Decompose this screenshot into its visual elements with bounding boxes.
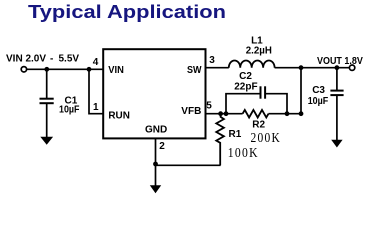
wire ground link	[156, 164, 221, 166]
node C1 tap	[44, 67, 49, 72]
svg-text:C3: C3	[312, 85, 325, 96]
resistor R2	[243, 110, 269, 118]
svg-text:Typical Application: Typical Application	[28, 2, 226, 22]
svg-text:10µF: 10µF	[59, 105, 80, 116]
resistor R1	[216, 114, 224, 166]
capacitor C2	[261, 86, 266, 98]
svg-text:GND: GND	[145, 125, 167, 136]
wire feedback vertical	[300, 68, 302, 114]
wire SW to L1	[206, 67, 229, 69]
node R1 tap	[218, 111, 223, 116]
wire VFB rail left	[206, 113, 243, 115]
svg-text:RUN: RUN	[108, 111, 129, 122]
svg-text:22pF: 22pF	[234, 81, 257, 92]
wire GND pin	[155, 138, 157, 165]
wire C1 lower lead	[46, 103, 48, 137]
svg-text:VFB: VFB	[181, 106, 201, 117]
output terminal (VOUT)	[349, 65, 354, 70]
input terminal (VIN)	[21, 67, 26, 72]
wire C3 lower lead	[336, 95, 338, 141]
svg-text:3: 3	[209, 55, 215, 66]
svg-text:-: -	[50, 54, 53, 65]
svg-text:VIN 2.0V: VIN 2.0V	[6, 54, 46, 65]
wire GND down lead	[155, 165, 157, 186]
svg-text:VOUT 1.8V: VOUT 1.8V	[317, 56, 363, 67]
capacitor C3	[330, 91, 343, 96]
wire input rail	[27, 68, 103, 70]
svg-text:2: 2	[159, 141, 165, 152]
capacitor C1	[40, 99, 54, 104]
inductor L1	[229, 60, 275, 67]
net label VIN 2.0V - 5.5V	[6, 54, 79, 65]
svg-text:1: 1	[93, 102, 99, 113]
node C2 right tap	[285, 111, 290, 116]
wire C2 left branch	[226, 94, 260, 114]
wire C1 upper lead	[46, 69, 48, 98]
node C3 tap	[335, 65, 340, 70]
svg-text:2.2µH: 2.2µH	[246, 45, 272, 56]
svg-text:VIN: VIN	[108, 65, 124, 76]
wire C3 upper lead	[336, 68, 338, 91]
ground (GND)	[150, 185, 161, 193]
node feedback corner	[299, 111, 304, 116]
svg-text:100K: 100K	[228, 146, 259, 161]
svg-text:5: 5	[206, 101, 212, 112]
ground (C1)	[40, 137, 53, 145]
svg-text:R2: R2	[252, 120, 265, 131]
svg-text:10µF: 10µF	[308, 96, 329, 107]
node RUN tap	[87, 67, 92, 72]
wire output rail	[275, 67, 350, 69]
node GND junction	[153, 162, 158, 167]
svg-text:5.5V: 5.5V	[59, 54, 80, 65]
svg-text:C2: C2	[239, 71, 252, 82]
node C2 left tap	[224, 111, 229, 116]
ground (C3)	[331, 140, 342, 148]
node feedback tap	[299, 65, 304, 70]
wire C2 right branch	[266, 94, 287, 114]
svg-text:R1: R1	[229, 129, 242, 140]
wire VFB rail right	[269, 113, 302, 115]
svg-text:4: 4	[93, 57, 99, 68]
IC U1 body	[103, 49, 205, 138]
svg-text:200K: 200K	[251, 131, 282, 146]
svg-text:SW: SW	[187, 65, 202, 76]
wire RUN branch	[89, 69, 103, 113]
